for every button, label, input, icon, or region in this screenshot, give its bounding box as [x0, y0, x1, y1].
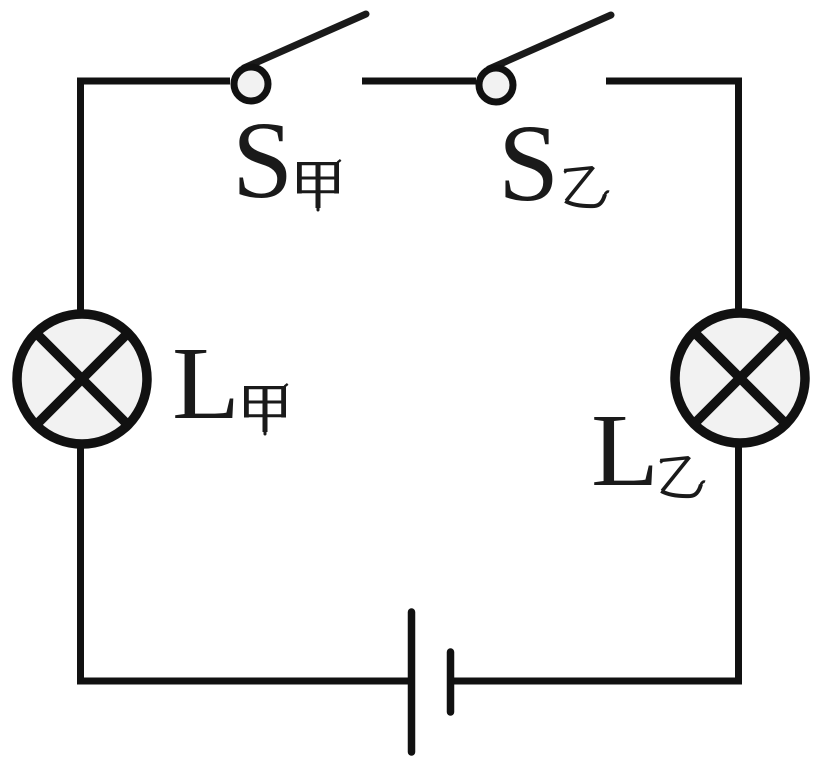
svg-text:L: L [591, 393, 659, 508]
svg-text:L: L [172, 326, 240, 441]
svg-text:S: S [498, 102, 559, 224]
svg-text:S: S [232, 99, 293, 221]
